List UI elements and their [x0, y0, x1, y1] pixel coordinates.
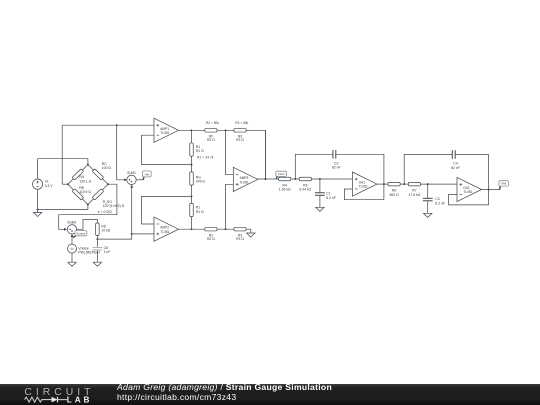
- svg-text:3.3 V: 3.3 V: [45, 184, 54, 188]
- svg-text:8.2 nF: 8.2 nF: [326, 196, 336, 200]
- node bridge bottom vertex: [87, 204, 89, 206]
- wire OA2 feedback: [449, 194, 489, 205]
- svg-text:Vnoise: Vnoise: [76, 231, 86, 235]
- node R4-R5 junction: [294, 178, 296, 180]
- op-amp OA2: [457, 177, 482, 201]
- node OA2 output: [488, 189, 490, 191]
- wire R3 top to feedback drop: [246, 130, 265, 179]
- wire R5 to OA1 + input: [311, 178, 352, 180]
- label AMP1: [160, 127, 169, 135]
- summer SUM2: [67, 225, 76, 234]
- summer SUM1: [127, 175, 136, 184]
- wire R3 bottom to ground: [246, 229, 251, 233]
- wire bridge left vertex stub: [62, 183, 68, 185]
- wire AMP1 output: [179, 129, 205, 131]
- annotation e value: [98, 210, 112, 214]
- node between R2 and R3 top: [225, 129, 227, 131]
- annotation R3 value: [235, 121, 248, 125]
- label AMP2: [160, 226, 169, 234]
- resistor R4: [279, 177, 291, 181]
- wire R7 to OA2 + input: [421, 183, 458, 185]
- svg-text:1.69 kΩ: 1.69 kΩ: [279, 188, 291, 192]
- wire OA1 output: [377, 183, 388, 185]
- wire R8 bottom to AMP2 input net: [97, 234, 131, 239]
- label Vnoise value: [78, 246, 100, 254]
- resistor R3 top: [234, 129, 246, 133]
- svg-text:R2 Ω: R2 Ω: [207, 138, 215, 142]
- svg-text:1 nF: 1 nF: [104, 250, 111, 254]
- wire SUM1 input drop: [117, 125, 125, 180]
- wire V1 bottom lead: [37, 189, 39, 209]
- node AMP2 + input tap: [131, 233, 133, 235]
- svg-text:TL081: TL081: [463, 190, 472, 194]
- arrow into SUM2 left input: [64, 228, 67, 231]
- node C1 tap: [319, 178, 321, 180]
- svg-text:249 Ω: 249 Ω: [196, 180, 206, 184]
- node AMP2 output: [191, 228, 193, 230]
- flag Vfilt: [499, 181, 509, 190]
- label R4 value: [279, 183, 291, 191]
- label R6 value: [390, 189, 400, 197]
- wire C4 riser: [404, 155, 452, 185]
- wire C2 riser: [295, 154, 332, 179]
- svg-text:SUM1: SUM1: [127, 171, 136, 175]
- capacitor C1: [315, 179, 325, 207]
- svg-text:R2 = 50k: R2 = 50k: [206, 121, 219, 125]
- wire up to SUM1 bottom input: [131, 186, 133, 234]
- svg-text:8.2 nF: 8.2 nF: [435, 201, 445, 205]
- label C3 value: [435, 197, 445, 205]
- capacitor C8: [93, 239, 103, 262]
- label R_SG value: [103, 200, 125, 208]
- resistor R2 bottom: [205, 227, 217, 231]
- wire bridge edge upper-left: [68, 165, 88, 185]
- label R2 top: [207, 134, 215, 142]
- annotation R2 value: [206, 121, 219, 125]
- svg-text:82 nF: 82 nF: [332, 166, 341, 170]
- wire Vnoise top lead: [71, 237, 73, 245]
- wire RG to R1 bottom: [191, 185, 193, 203]
- wire Vnoise bottom lead: [71, 253, 73, 262]
- svg-text:PWL(REPEAT: PWL(REPEAT: [78, 251, 100, 255]
- footer attribution text: [117, 383, 332, 402]
- svg-text:TL081: TL081: [160, 230, 169, 234]
- label RG value: [196, 175, 206, 183]
- wire AMP3 output: [258, 178, 279, 180]
- svg-text:R1 Ω: R1 Ω: [196, 149, 204, 153]
- arrow into SUM2 bottom input: [71, 234, 74, 237]
- svg-text:CV: CV: [70, 247, 74, 251]
- node OA1 output: [383, 183, 385, 185]
- ground below C3: [424, 213, 432, 217]
- svg-text:100 Ω: 100 Ω: [102, 166, 112, 170]
- wire drop to AMP3 - input: [226, 130, 234, 174]
- wire R6 to R7: [400, 183, 408, 185]
- node C3 tap: [427, 183, 429, 185]
- wire R1 to RG: [191, 156, 193, 172]
- svg-text:Vfilt: Vfilt: [501, 182, 506, 186]
- label SUM1: [127, 171, 136, 175]
- wire bridge edge lower-right: [88, 184, 108, 204]
- resistor R1 top: [190, 143, 194, 156]
- capacitor C3: [423, 184, 433, 213]
- resistor R1 bottom: [190, 203, 194, 216]
- wire AMP3 + input drop: [226, 184, 234, 229]
- wire V1+ to bridge top vertex: [38, 159, 88, 165]
- svg-text:LAB: LAB: [67, 396, 93, 405]
- node between R2 and R3 bottom: [225, 228, 227, 230]
- resistor RG: [190, 172, 194, 185]
- svg-text:R3 = 50k: R3 = 50k: [235, 121, 248, 125]
- label RC value: [102, 162, 112, 170]
- resistor RB (bridge lower-left): [72, 189, 84, 200]
- resistor R3 bottom: [234, 227, 246, 231]
- svg-text:R1 = 24.7k: R1 = 24.7k: [197, 155, 214, 159]
- label SUM2: [67, 221, 76, 225]
- svg-text:Vbr: Vbr: [145, 173, 150, 177]
- wire R4 to R5: [291, 178, 299, 180]
- label C4 value: [451, 162, 460, 170]
- svg-text:120*(1+e*2) Ω: 120*(1+e*2) Ω: [103, 204, 125, 208]
- label R7 value: [409, 189, 421, 197]
- svg-text:82 nF: 82 nF: [451, 166, 460, 170]
- flag Vinst: [276, 171, 287, 178]
- logo diode: [52, 397, 58, 403]
- wire AMP2 feedback: [141, 196, 191, 224]
- svg-text:Vinst: Vinst: [278, 172, 285, 176]
- wire bridge edge upper-right: [88, 165, 108, 185]
- svg-text:R3 Ω: R3 Ω: [236, 237, 244, 241]
- logo resistor zigzag: [25, 397, 52, 402]
- resistor R8: [96, 223, 100, 239]
- wire R2 to R3 top: [217, 129, 235, 131]
- ground at V1: [33, 209, 41, 216]
- node bridge right vertex: [107, 183, 109, 185]
- arrow into SUM1 bottom input: [130, 185, 133, 188]
- svg-text:562 Ω: 562 Ω: [390, 193, 400, 197]
- label V1 value: [45, 180, 54, 188]
- svg-text:120.1 Ω: 120.1 Ω: [79, 180, 91, 184]
- ground below C8: [93, 262, 101, 266]
- wire C2 to output riser: [336, 154, 384, 199]
- ground below C1: [316, 207, 324, 211]
- label C8 value: [104, 246, 111, 254]
- wire AMP3 feedback riser: [264, 130, 266, 179]
- label R2 bottom: [207, 233, 215, 241]
- label OA1: [359, 181, 368, 189]
- label R3 bottom: [236, 233, 244, 241]
- wire V1 top lead: [37, 159, 39, 180]
- label AMP3: [240, 176, 249, 184]
- op-amp AMP3: [233, 167, 257, 191]
- node AMP1 output: [190, 129, 192, 131]
- label RB value: [79, 186, 91, 194]
- node AMP3 output: [264, 178, 266, 180]
- label C2 value: [332, 161, 341, 169]
- svg-text:10 kΩ: 10 kΩ: [101, 229, 110, 233]
- svg-text:R3 Ω: R3 Ω: [236, 138, 244, 142]
- svg-text:17.8 kΩ: 17.8 kΩ: [409, 193, 421, 197]
- wire vertical from top rail down to bridge left vertex: [61, 125, 63, 184]
- arrow into SUM1 left input: [124, 178, 127, 181]
- CircuitLab logo: [0, 385, 100, 405]
- svg-text:TL081: TL081: [160, 131, 169, 135]
- wire AMP2 + input: [132, 233, 154, 235]
- wire OA1 feedback: [344, 189, 384, 200]
- node R6-R7 junction: [403, 183, 405, 185]
- node top rail SUM1 tap: [116, 124, 118, 126]
- svg-text:6.04 kΩ: 6.04 kΩ: [299, 188, 311, 192]
- resistor RC (bridge upper-right): [92, 169, 104, 180]
- ground below Vnoise: [68, 262, 76, 266]
- label R8 value: [101, 224, 110, 232]
- node at V1 ground junction: [37, 208, 39, 210]
- wire R1 bottom to AMP2 out: [191, 217, 193, 230]
- flag Vbr at SUM1 output: [143, 171, 152, 180]
- label R1 bottom value: [196, 206, 204, 214]
- label OA2: [463, 186, 472, 194]
- svg-text:R2 Ω: R2 Ω: [207, 237, 215, 241]
- wire top rail (bridge left output to AMP1 + input): [62, 124, 154, 126]
- capacitor C2: [333, 150, 336, 159]
- resistor R6: [388, 182, 400, 186]
- label R3 top: [236, 134, 244, 142]
- wire bridge right vertex to SUM2 path: [59, 184, 117, 229]
- voltage source V1: [33, 179, 43, 189]
- wire R2 to R3 bottom: [217, 228, 235, 230]
- node RG-R1 junction: [191, 195, 193, 197]
- node bridge left vertex: [67, 183, 69, 185]
- svg-text:TL081: TL081: [240, 180, 249, 184]
- wire bridge edge lower-left: [68, 184, 88, 204]
- wire SUM2 output to R8: [77, 219, 98, 229]
- svg-text:SUM2: SUM2: [67, 221, 76, 225]
- resistor R7: [408, 182, 420, 186]
- label RA value: [79, 175, 91, 183]
- wire AMP2 output: [179, 228, 205, 230]
- svg-text:R1 Ω: R1 Ω: [196, 210, 204, 214]
- node bridge top vertex: [87, 164, 89, 166]
- wire AMP1 feedback: [142, 135, 192, 164]
- svg-text:TL081: TL081: [359, 185, 368, 189]
- label R1 top value: [196, 145, 204, 153]
- flag Vnoise: [73, 231, 87, 238]
- annotation R1 value: [197, 155, 214, 159]
- node R1-RG junction: [191, 164, 193, 166]
- wire C4 to output riser: [455, 155, 488, 205]
- ground after R3 bottom: [247, 233, 255, 237]
- wire bottom rail to bridge bottom vertex: [38, 205, 88, 210]
- resistor R5: [299, 177, 311, 181]
- wire SUM1 output: [136, 179, 143, 181]
- voltage source Vnoise: [68, 244, 77, 253]
- wire OA2 output: [482, 189, 500, 191]
- node below R8: [96, 238, 98, 240]
- resistor R_SG (bridge lower-right): [92, 189, 104, 200]
- label R5 value: [299, 183, 311, 191]
- label C1 value: [326, 192, 336, 200]
- op-amp AMP2: [154, 217, 179, 241]
- resistor RA (bridge upper-left): [72, 169, 84, 180]
- op-amp AMP1: [154, 118, 179, 142]
- resistor R2 top: [205, 129, 217, 133]
- footer bar: [0, 384, 540, 405]
- op-amp OA1: [352, 172, 377, 196]
- svg-text:119.9 Ω: 119.9 Ω: [79, 190, 91, 194]
- svg-text:e = 0.002: e = 0.002: [98, 210, 112, 214]
- capacitor C4: [452, 150, 455, 159]
- wire chain AMP1 out to R1: [190, 130, 192, 143]
